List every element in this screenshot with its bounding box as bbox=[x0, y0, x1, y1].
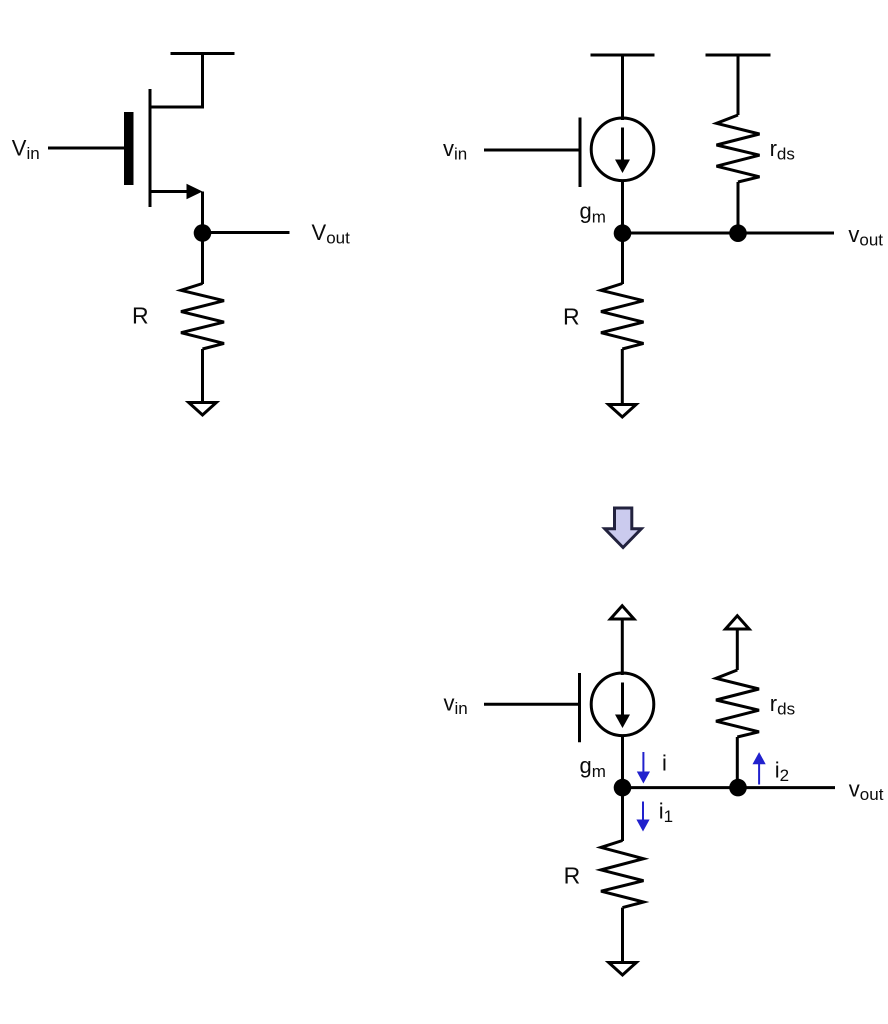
current arrow i2 (through rds) bbox=[753, 752, 766, 784]
wire output net to vout (bottom) bbox=[623, 786, 836, 789]
wire rail to current source bbox=[621, 55, 624, 120]
wire node to resistor R (bottom) bbox=[621, 788, 624, 841]
svg-text:R: R bbox=[564, 863, 581, 889]
node Vout junction dot bbox=[194, 224, 212, 242]
ground (small-signal circuit) bbox=[609, 405, 637, 418]
current arrow i1 (through R) bbox=[636, 802, 649, 832]
ground (bottom circuit) bbox=[609, 963, 637, 976]
wire current source to node bbox=[621, 181, 624, 234]
wire resistor R to ground (bottom) bbox=[621, 908, 624, 961]
power rail (small-signal, gm branch) bbox=[591, 54, 655, 57]
wire resistor R to ground (small-signal) bbox=[621, 349, 624, 403]
gate bar of controlled source bbox=[579, 118, 582, 188]
current source gm (dependent source circle with arrow) bbox=[591, 118, 654, 181]
wire output stub Vout bbox=[203, 231, 290, 234]
ground (left circuit) bbox=[189, 403, 217, 416]
current source gm (bottom circuit) bbox=[591, 673, 654, 736]
node junction dot (gm branch) bbox=[614, 224, 632, 242]
wire output net to vout bbox=[623, 232, 835, 235]
wire AC ground to current source bbox=[621, 621, 624, 676]
wire AC ground to resistor rds (bottom) bbox=[736, 631, 739, 671]
wire node to resistor R bbox=[201, 233, 204, 284]
gate bar of controlled source (bottom) bbox=[578, 673, 581, 742]
power rail (small-signal, rds branch) bbox=[706, 54, 771, 57]
node junction dot (rds branch) bbox=[729, 224, 747, 242]
wire vin to gate bar bbox=[484, 149, 580, 152]
svg-text:R: R bbox=[132, 303, 149, 329]
node junction dot (bottom, rds branch) bbox=[729, 779, 747, 797]
wire node to resistor R (small-signal) bbox=[621, 233, 624, 284]
block arrow (transformation, pointing down) bbox=[605, 508, 642, 548]
wire Vin to gate bbox=[48, 147, 124, 150]
AC ground up-arrow (gm branch) bbox=[610, 606, 634, 619]
wire current source to node (bottom) bbox=[621, 735, 624, 788]
current arrow i (into node) bbox=[637, 752, 650, 784]
wire rds to node bbox=[737, 182, 740, 233]
resistor R (small-signal) bbox=[601, 284, 644, 350]
resistor rds (bottom) bbox=[716, 670, 759, 737]
wire source to output node bbox=[201, 192, 204, 234]
resistor rds bbox=[717, 115, 760, 182]
transistor M1 (NMOS, source follower) bbox=[124, 89, 203, 207]
resistor R (left circuit) bbox=[181, 284, 224, 350]
resistor R (bottom) bbox=[601, 841, 644, 908]
power rail VDD (MOSFET circuit) bbox=[171, 52, 235, 55]
svg-text:i: i bbox=[662, 751, 667, 776]
wire vin to gate bar (bottom) bbox=[484, 703, 580, 706]
svg-text:R: R bbox=[563, 304, 580, 330]
AC ground up-arrow (rds branch) bbox=[726, 616, 750, 629]
wire drain to VDD rail bbox=[151, 54, 203, 108]
wire resistor R to ground bbox=[201, 349, 204, 401]
wire rail to resistor rds bbox=[737, 55, 740, 115]
node junction dot (bottom, gm branch) bbox=[614, 779, 632, 797]
wire rds to node (bottom) bbox=[736, 737, 739, 788]
